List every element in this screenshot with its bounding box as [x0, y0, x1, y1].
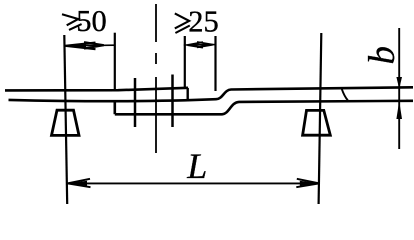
dimension b upper arrow (points down) [396, 77, 402, 89]
break mark swoosh on right plate [342, 89, 348, 101]
label: >= symbol of 50 [62, 14, 82, 30]
svg-text:50: 50 [76, 4, 107, 38]
right support centerline / L extension [319, 33, 322, 204]
dimension line >=50 [65, 42, 115, 49]
plate P1 right end face [186, 88, 188, 100]
dimension line >=25 [184, 42, 216, 48]
dim >=25 left extension line [184, 36, 186, 89]
plate P2 bottom line with joggle bend [115, 101, 413, 115]
svg-text:b: b [362, 46, 403, 65]
plate P2 left end face [114, 100, 117, 114]
dimension b lower arrow (points up) [396, 101, 402, 119]
dim >=25 right extension line [214, 36, 216, 91]
svg-text:25: 25 [188, 4, 219, 38]
centerline of joint [155, 4, 157, 153]
left support trapezoid [52, 110, 80, 135]
dimension b vertical line [398, 28, 400, 149]
dim >=50 right extension line [114, 33, 116, 90]
left support centerline / L extension [64, 35, 67, 204]
right support trapezoid [303, 110, 331, 135]
plate P1 bottom / plate P2 top shared line with joggle bend [9, 87, 414, 101]
bolt line B2 [171, 75, 174, 128]
bolt line B1 [134, 78, 137, 127]
svg-text:L: L [186, 146, 207, 186]
plate P1 top line [5, 88, 188, 91]
label: >= symbol of 25 [175, 13, 190, 33]
dimension line L [67, 179, 320, 187]
